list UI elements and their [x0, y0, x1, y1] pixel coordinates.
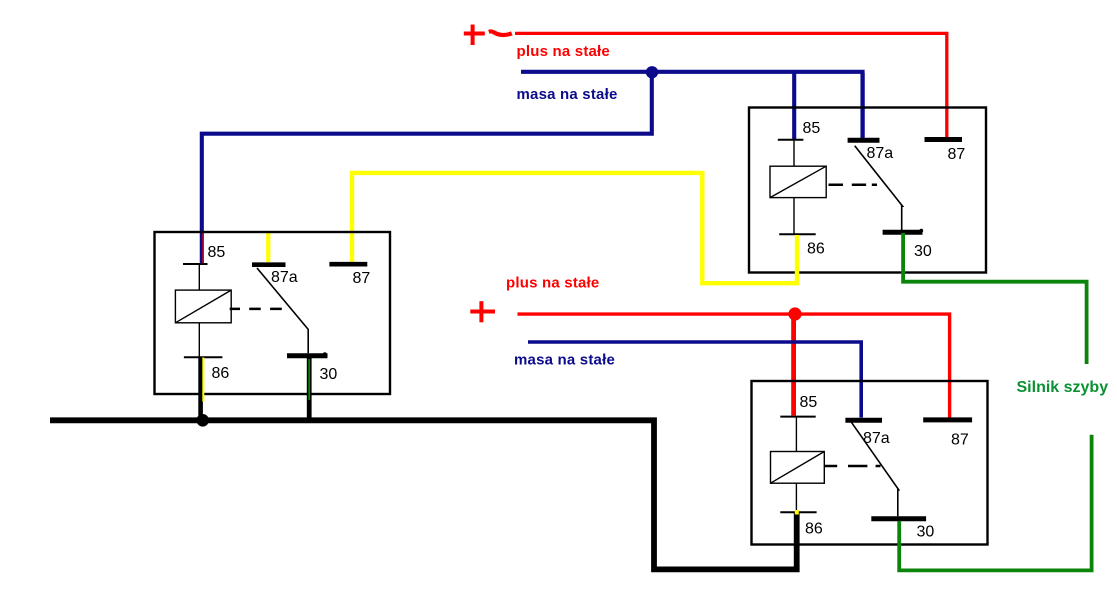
wire: yellow stub at K2 pin 87a — [266, 232, 270, 263]
K2 pin 87a terminal — [252, 262, 286, 267]
K3 pin 86 yellow dot — [795, 510, 799, 515]
svg-text:87: 87 — [951, 432, 969, 449]
K2 coil — [175, 290, 231, 323]
wire: red plus na stałe (top) to relay K1 pin 87 — [515, 33, 947, 139]
K1 coil lead from pin 85 — [793, 141, 795, 167]
wire: black ground bus to K3 pin 86 — [50, 420, 797, 569]
svg-text:masa na stałe: masa na stałe — [517, 86, 618, 103]
K2 pin 30 terminal — [287, 353, 328, 358]
K3 pin 87 terminal — [923, 417, 972, 422]
svg-text:Silnik szyby: Silnik szyby — [1017, 379, 1109, 396]
junction: red supply node — [788, 307, 801, 320]
K3 pin 85 terminal — [780, 416, 815, 418]
K3 pin 87a terminal — [845, 418, 882, 423]
wire: blue masa na stałe (top) horizontal — [521, 70, 865, 74]
svg-text:plus na stałe: plus na stałe — [517, 43, 610, 60]
K3 coil — [771, 452, 825, 484]
wire: red sliver beside K2 pin 85 lead — [202, 233, 204, 263]
wire: blue masa na stałe (bottom) to K3 pin 87a — [528, 342, 861, 418]
wire: red plus na stałe (bottom) to K3 pin 87 — [518, 314, 950, 417]
K1 pin 87a terminal — [848, 138, 880, 143]
relay K3 box (bottom right) — [752, 381, 988, 545]
svg-text:87a: 87a — [271, 269, 298, 286]
svg-text:87a: 87a — [867, 145, 894, 162]
K3 pin 30 terminal — [871, 516, 926, 521]
svg-text:86: 86 — [212, 365, 230, 382]
svg-text:30: 30 — [320, 366, 338, 383]
svg-text:85: 85 — [208, 244, 226, 261]
svg-text:plus na stałe: plus na stałe — [506, 275, 599, 292]
battery plus symbol (bottom supply) — [470, 301, 495, 322]
wire: blue branch to relay K1 pin 87a — [860, 73, 864, 140]
K3 actuator dashed link — [824, 465, 880, 467]
K1 pin 30 end nub — [919, 229, 923, 233]
K1 pin 30 terminal — [883, 230, 923, 235]
K3 switch arm — [851, 422, 899, 517]
K1 coil lead to pin 86 — [793, 198, 795, 234]
wire: yellow K2 pin 87 to K1 pin 86 — [352, 173, 797, 283]
junction: ground bus node — [196, 414, 209, 427]
wire: red plus-na-stale feed squiggle end — [489, 31, 512, 35]
svg-text:86: 86 — [805, 521, 823, 538]
K1 pin 87 terminal — [925, 137, 963, 142]
svg-text:30: 30 — [914, 243, 932, 260]
wire: black K2 pin 86 to ground bus — [198, 358, 203, 420]
wire: black K2 pin 30 to ground bus — [307, 356, 312, 419]
wire: blue from junction to left relay K2 pin 85 — [202, 74, 652, 264]
K1 coil — [770, 166, 826, 197]
svg-text:30: 30 — [917, 524, 935, 541]
wire: green Silnik szyby to K3 pin 30 — [899, 435, 1091, 571]
K2 pin 87 terminal — [329, 262, 367, 267]
K1 pin 85 terminal — [778, 139, 804, 141]
wire: blue branch to relay K1 pin 85 — [792, 73, 796, 140]
svg-text:86: 86 — [807, 241, 825, 258]
wire: green overlay on K2 pin 30 drop — [308, 359, 310, 400]
junction: masa wire node — [646, 66, 658, 78]
svg-text:87: 87 — [948, 146, 966, 163]
K1 actuator dashed link — [829, 184, 878, 187]
wire: green K1 pin 30 to Silnik szyby — [903, 233, 1087, 364]
K3 pin 86 terminal — [780, 511, 816, 513]
K2 pin 86 terminal — [184, 356, 223, 358]
K2 pin 30 end nub — [323, 352, 327, 356]
relay K1 box (top right) — [749, 108, 986, 273]
K2 coil lead from pin 85 — [198, 265, 200, 290]
battery plus symbol (top supply) — [464, 25, 485, 46]
K3 coil lead from pin 85 — [795, 418, 797, 452]
wire: yellow overlay on K2 pin 86 drop — [202, 358, 204, 402]
svg-text:87: 87 — [353, 270, 371, 287]
svg-text:masa na stałe: masa na stałe — [514, 352, 615, 369]
K2 coil lead to pin 86 — [198, 323, 200, 357]
svg-text:85: 85 — [803, 120, 821, 137]
relay K2 box (left) — [155, 232, 391, 394]
K1 pin 86 terminal — [779, 233, 816, 235]
K3 coil lead to pin 86 — [795, 483, 797, 511]
wire: red thick drop to K3 pin 85 — [791, 314, 796, 416]
K1 switch arm — [855, 146, 903, 231]
K2 pin 85 terminal — [183, 263, 208, 265]
K2 switch arm — [257, 268, 308, 353]
svg-text:85: 85 — [800, 394, 818, 411]
K2 actuator dashed link — [230, 308, 282, 311]
